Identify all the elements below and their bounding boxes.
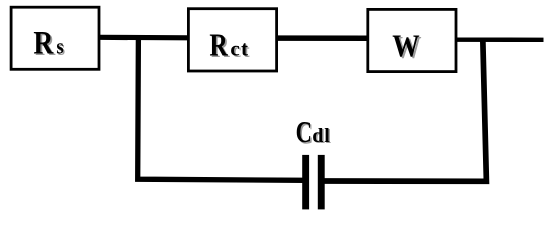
Warburg element W	[368, 9, 456, 71]
svg-text:ct: ct	[230, 37, 249, 61]
wire Rct to W	[276, 35, 368, 41]
svg-text:R: R	[209, 28, 228, 63]
svg-text:C: C	[296, 115, 312, 149]
svg-text:W: W	[392, 30, 420, 64]
resistor Rct	[188, 9, 276, 71]
wire Rs to Rct	[99, 35, 188, 41]
wire right branch: junction down to bottom rail	[325, 39, 487, 181]
svg-text:dl: dl	[312, 125, 330, 147]
resistor Rs	[11, 7, 99, 69]
wire W to right terminal	[456, 38, 544, 42]
wire left branch: junction down to bottom rail	[138, 35, 304, 180]
capacitor Cdl	[296, 115, 332, 210]
svg-text:s: s	[56, 35, 63, 59]
svg-text:R: R	[33, 24, 54, 61]
